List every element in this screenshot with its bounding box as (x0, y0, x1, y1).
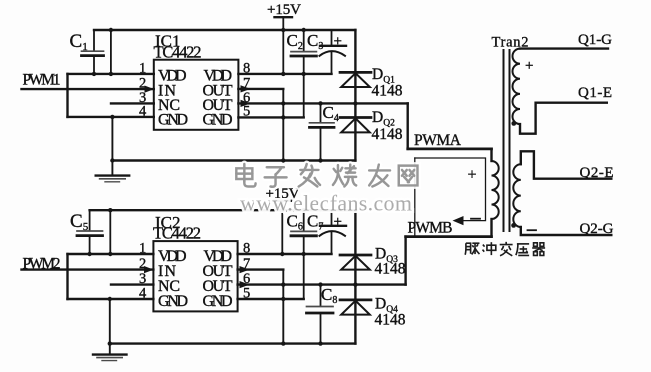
svg-text:+15V: +15V (267, 2, 301, 18)
svg-text:+: + (334, 34, 342, 50)
pin 5 label (IC2) (243, 285, 250, 301)
node diode junction to PWMA (353, 101, 357, 105)
svg-text:4148: 4148 (375, 261, 406, 278)
node Q2-E output wire (521, 151, 612, 178)
power +15V (lower) (266, 186, 300, 202)
wire pin7 (IC2) with arrow (238, 268, 284, 270)
wire pin3 NC stub (111, 102, 154, 104)
polarity dot (upper secondary) (511, 121, 516, 126)
wire diode chain vertical (lower) (354, 210, 356, 343)
pin 4 label (139, 103, 147, 119)
svg-text:+: + (334, 214, 342, 230)
wire pin5 (IC2) (238, 298, 304, 300)
node junction dot C1/pin1 wire (92, 72, 96, 76)
wire pin1 (68, 73, 154, 75)
pin 1 label (139, 60, 146, 76)
svg-text:Q1-G: Q1-G (578, 32, 612, 48)
svg-text:C5: C5 (70, 211, 89, 233)
pin 6 label (IC2) (243, 271, 250, 287)
capacitor C3 (polarized) (331, 30, 333, 45)
diode DQ1 4148 (340, 71, 371, 74)
polarity annotation box (primary) (415, 158, 486, 221)
wire pin6 (IC2) with arrow to diode junction (238, 283, 356, 285)
svg-text:Q2-E: Q2-E (580, 165, 614, 181)
wire pin4 to ground rail (111, 117, 113, 161)
wire pin6 OUT with arrow to diode junction (238, 102, 355, 104)
wire ground rail (top section) (112, 159, 355, 161)
svg-text:C4: C4 (323, 103, 339, 124)
svg-text:GND: GND (158, 112, 188, 129)
diode DQ3 4148 (340, 254, 371, 257)
wire +15V top rail (94, 29, 355, 31)
svg-text:C3: C3 (307, 31, 323, 52)
svg-text:GND: GND (203, 293, 233, 310)
wire pin8 (IC2) (238, 253, 332, 255)
svg-text:PWM1: PWM1 (23, 72, 61, 89)
node junction dot rail/pin1 drop (109, 28, 113, 32)
node diode junction to PWMB (353, 282, 357, 286)
svg-text:4148: 4148 (375, 312, 406, 329)
node junction dot pin4/ground drop (110, 115, 114, 119)
wire pin7 OUT with arrow (238, 88, 283, 90)
ground (lower section) (109, 344, 111, 354)
wire pin4 (68, 116, 154, 118)
wire PWMB rise (404, 237, 406, 285)
wire pin4 (IC2) (68, 298, 154, 300)
pin 2 label (139, 76, 146, 92)
wire diode chain vertical (top) (354, 30, 356, 161)
ground (top section) (111, 161, 113, 176)
node PWMA wire (408, 148, 492, 151)
wire left vertical pin1-pin4 (66, 74, 68, 117)
IC U2 (IC2 TC4422 MOSFET driver) (153, 241, 237, 311)
capacitor C8 (320, 285, 322, 306)
capacitor C7 (polarized) (331, 210, 333, 225)
wire pin4 to lower ground rail (109, 299, 111, 344)
node Q1-G output wire (520, 47, 608, 49)
pin 8 label (243, 60, 250, 76)
svg-text:C2: C2 (287, 31, 303, 52)
capacitor C5 (89, 210, 91, 230)
wire ground rail (lower section) (110, 342, 356, 344)
svg-text:GND: GND (158, 293, 188, 310)
power +15V (top) (267, 2, 301, 18)
capacitor C2 (303, 30, 305, 51)
wire pin8 VDD (238, 73, 331, 75)
wire rail to pin1 (110, 30, 112, 74)
transformer core (503, 50, 505, 231)
capacitor C1 (93, 30, 95, 50)
wire pin7 down to lower gnd rail (282, 270, 284, 344)
wire pin3 stub (IC2) (111, 283, 153, 285)
node PWM1 input wire (22, 88, 154, 90)
wire pin5 (238, 116, 303, 118)
svg-text:4148: 4148 (372, 126, 403, 143)
wire pin1 (IC2) (68, 253, 154, 255)
capacitor C4 (320, 103, 322, 122)
node junction dot rail/C2 (302, 28, 306, 32)
capacitor C6 (303, 210, 305, 231)
pin 1 label (IC2) (139, 240, 146, 256)
svg-text:TC4422: TC4422 (153, 224, 201, 243)
svg-text:4148: 4148 (372, 83, 403, 100)
wire +15V lower rail (90, 209, 356, 211)
svg-text:PWMA: PWMA (414, 132, 462, 149)
svg-text:GND: GND (203, 112, 233, 129)
wire pin7 down to gnd rail (282, 89, 284, 161)
node junction dot ground rail left (110, 158, 114, 162)
pin 2 label (IC2) (139, 256, 146, 272)
svg-text:PWM2: PWM2 (23, 255, 61, 272)
wire rail to pin1 (IC2) (109, 210, 111, 254)
pin 8 label (IC2) (243, 240, 250, 256)
polarity dot (lower secondary) (511, 223, 516, 228)
transformer Tran2 primary winding (490, 149, 492, 161)
pin 3 label (IC2) (139, 271, 146, 287)
pin 6 label (243, 90, 250, 106)
svg-text:+: + (525, 58, 533, 74)
pin 7 label (243, 76, 250, 92)
IC U1 (IC1 TC4422 MOSFET driver) (154, 60, 239, 130)
node Q2-G output wire (521, 227, 612, 235)
wire PWMA drop (407, 103, 409, 148)
pin 5 label (243, 103, 250, 119)
node Q1-E output wire (520, 103, 607, 134)
label 脉冲变压器 (pulse transformer) (465, 242, 545, 256)
svg-text:TC4422: TC4422 (154, 43, 202, 62)
svg-text:Q2-G: Q2-G (580, 221, 614, 237)
transformer secondary winding (upper) (513, 49, 521, 124)
svg-text:C8: C8 (321, 285, 337, 306)
pin 4 label (IC2) (139, 285, 147, 301)
svg-text:+: + (468, 167, 477, 184)
transformer secondary winding (lower) (513, 164, 520, 227)
node PWM2 input wire (22, 268, 154, 270)
node PWMB wire (406, 235, 492, 238)
svg-text:Q1-E: Q1-E (578, 85, 612, 101)
wire left vertical (IC2) (66, 254, 68, 299)
pin 3 label (139, 90, 146, 106)
svg-text:www.elecfans.com: www.elecfans.com (240, 191, 412, 216)
diode DQ4 4148 (340, 299, 371, 302)
diode DQ2 4148 (340, 116, 371, 119)
node junction dot rail/+15V stub (281, 28, 285, 32)
watermark 电子发烧友网 (grey pass) (236, 164, 417, 187)
pin 7 label (IC2) (243, 256, 250, 272)
watermark 电子发烧友网 (white halo pass) (236, 164, 417, 187)
svg-text:C1: C1 (70, 31, 88, 53)
